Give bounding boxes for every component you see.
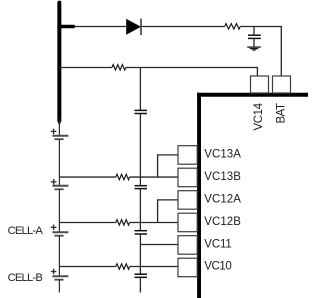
pin BAT box <box>273 76 291 93</box>
battery cell 3 (CELL-A) <box>51 225 69 236</box>
wire: column segment C3 to C4 (node VC12) <box>139 189 141 231</box>
wire: R2 to corner, down to VC14 pin <box>126 68 258 77</box>
wire: R5 to VC10 pin <box>130 266 178 268</box>
capacitor C4 <box>135 231 148 234</box>
resistor R1 (top row) <box>225 24 241 29</box>
svg-text:VC12A: VC12A <box>204 193 241 205</box>
pin VC12B box <box>178 213 197 232</box>
wire: diode cathode to resistor R1 <box>142 26 225 28</box>
resistor R2 (VC14 row) <box>112 65 126 70</box>
battery cell 1 <box>51 129 69 140</box>
resistor R3 (VC13B row) <box>116 174 130 179</box>
wire: cell4 bottom stub <box>58 280 60 293</box>
wire: VC13A bracket <box>158 155 178 177</box>
pin VC13A box <box>178 146 197 165</box>
svg-text:BAT: BAT <box>275 103 287 124</box>
wire: R1 to corner, down to BAT pin <box>240 27 281 77</box>
resistor R4 (VC12B row) <box>116 220 130 225</box>
wire: column segment C4 to C5 (node VC11/VC10) <box>139 234 141 274</box>
svg-text:VC14: VC14 <box>253 102 265 130</box>
IC U1 outline (left edge) <box>197 93 201 298</box>
wire: VC13B row, stack to resistor R3 <box>59 176 115 178</box>
wire: VC10 row, stack to resistor R5 <box>59 266 115 268</box>
svg-text:VC11: VC11 <box>204 238 232 250</box>
wire: top row, stub to diode anode <box>74 26 127 28</box>
svg-text:VC12B: VC12B <box>204 216 241 228</box>
svg-text:VC10: VC10 <box>204 261 232 273</box>
wire: thick stub from bus on top row <box>59 25 73 29</box>
wire: cell1 to cell2 <box>58 139 60 186</box>
wire: bus taper to cell 1 <box>58 119 60 136</box>
wire: R3 to VC13B pin <box>130 176 178 178</box>
capacitor C1 <box>248 35 261 38</box>
wire: C1 to ground <box>253 38 255 46</box>
pin VC14 box <box>251 76 269 93</box>
wire: VC14 row, bus to resistor R2 <box>59 67 112 69</box>
pin VC13B box <box>178 168 197 187</box>
pin VC12A box <box>178 191 197 210</box>
wire: column segment C2 to C3 (node VC13) <box>139 114 141 186</box>
diode D1 <box>127 19 142 35</box>
wire: VC12B row, stack to resistor R4 <box>59 222 115 224</box>
wire: R4 to VC12B pin <box>130 222 178 224</box>
svg-text:VC13A: VC13A <box>204 149 241 161</box>
ground <box>247 47 260 50</box>
wire: VC11 row, column to VC11 pin <box>140 244 178 246</box>
svg-text:CELL-B: CELL-B <box>8 272 43 284</box>
IC U1 outline (top edge) <box>197 93 308 97</box>
wire: cell2 to cell3 <box>58 189 60 232</box>
wire: capacitor C1 stem from top row <box>253 27 255 36</box>
svg-text:CELL-A: CELL-A <box>8 225 44 237</box>
capacitor C3 <box>135 186 148 189</box>
svg-text:VC13B: VC13B <box>204 171 241 183</box>
resistor R5 (VC10 row) <box>116 264 130 269</box>
capacitor C2 <box>135 110 148 113</box>
pin VC11 box <box>178 236 197 255</box>
wire: cell3 to cell4 <box>58 236 60 276</box>
wire: VC12A bracket <box>158 200 178 223</box>
wire: column bottom stub <box>139 277 141 292</box>
bus bar (thick vertical pack rail) <box>57 1 61 126</box>
battery cell 2 <box>51 179 69 189</box>
wire: filter column top segment (node VC14) <box>139 68 141 111</box>
capacitor C5 <box>135 274 148 277</box>
battery cell 4 (CELL-B) <box>51 269 69 280</box>
pin VC10 box <box>178 258 197 277</box>
